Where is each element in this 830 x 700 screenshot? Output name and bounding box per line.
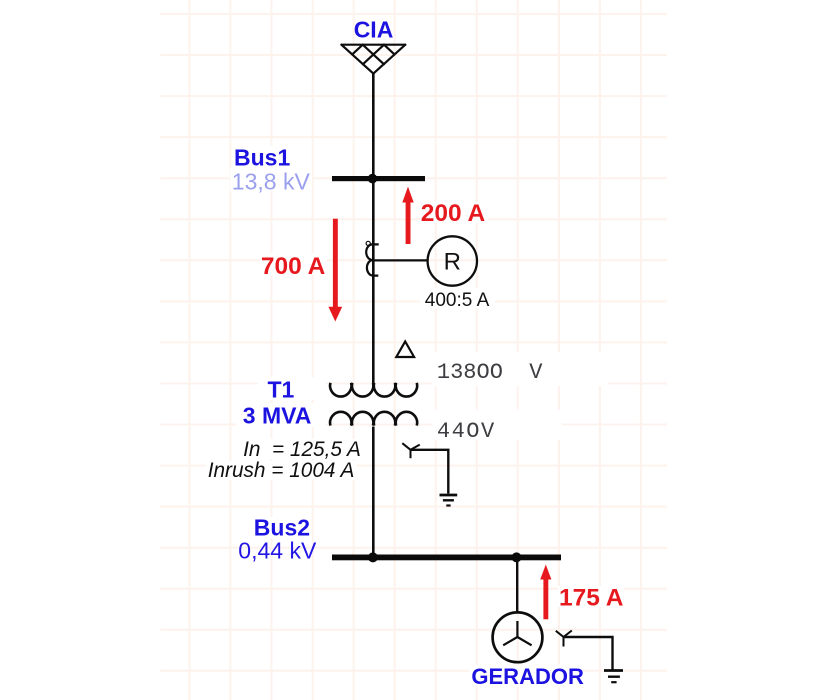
svg-text:175 A: 175 A (559, 585, 624, 612)
svg-text:R: R (444, 248, 461, 275)
svg-text:200 A: 200 A (421, 200, 486, 227)
svg-text:In = 125,5 A: In = 125,5 A (243, 438, 361, 461)
svg-text:GERADOR: GERADOR (471, 664, 584, 689)
svg-text:13,8 kV: 13,8 kV (232, 168, 311, 194)
svg-text:44OV: 44OV (437, 419, 496, 444)
svg-text:T1: T1 (268, 377, 295, 403)
svg-text:Inrush = 1004 A: Inrush = 1004 A (208, 459, 355, 482)
svg-text:0,44 kV: 0,44 kV (238, 538, 317, 564)
svg-text:3 MVA: 3 MVA (243, 403, 312, 429)
svg-text:Bus1: Bus1 (234, 144, 290, 170)
svg-text:138OO V: 138OO V (437, 360, 543, 385)
svg-text:400:5 A: 400:5 A (425, 290, 490, 311)
svg-text:700 A: 700 A (261, 253, 326, 280)
svg-text:CIA: CIA (354, 17, 394, 43)
